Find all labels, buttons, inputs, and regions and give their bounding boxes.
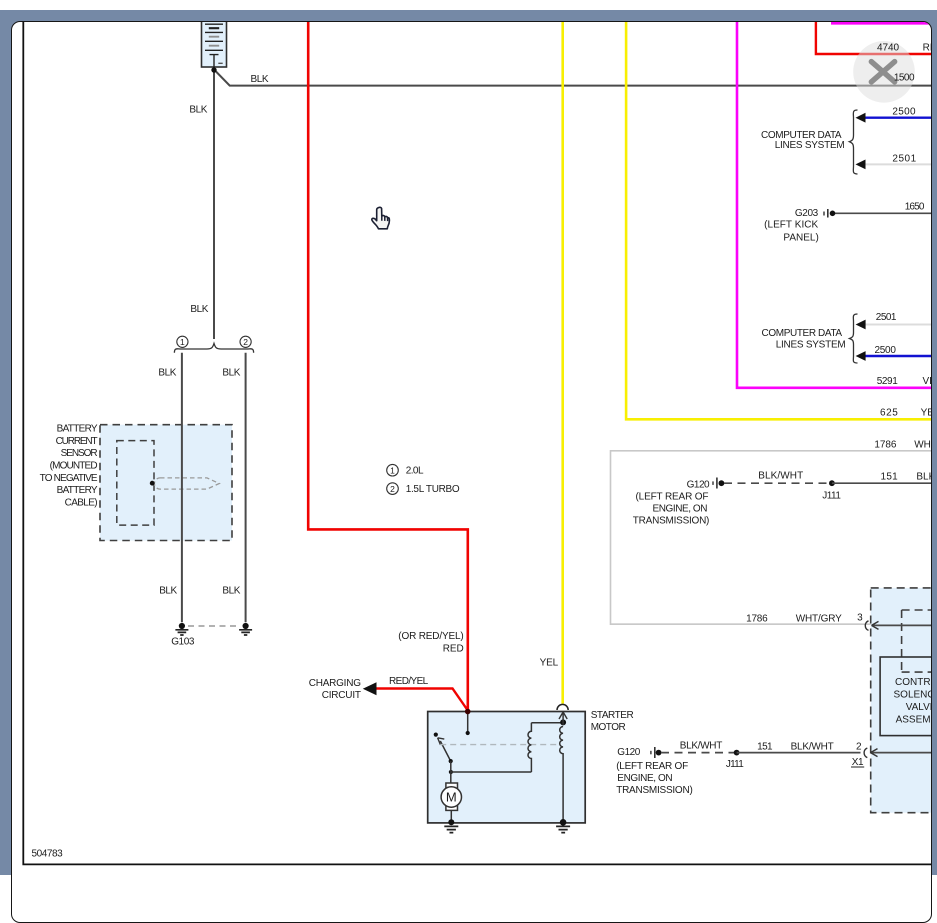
- svg-text:BLK: BLK: [222, 367, 240, 378]
- svg-text:(LEFT REAR OF: (LEFT REAR OF: [635, 491, 708, 502]
- svg-text:1: 1: [390, 465, 395, 475]
- svg-text:G203: G203: [794, 208, 818, 219]
- svg-text:VALVE: VALVE: [905, 702, 932, 713]
- svg-text:2: 2: [390, 483, 395, 493]
- svg-text:TRANSMISSION): TRANSMISSION): [632, 515, 709, 526]
- svg-text:1500: 1500: [893, 72, 914, 83]
- svg-text:ENGINE, ON: ENGINE, ON: [652, 503, 707, 514]
- svg-text:BLK: BLK: [159, 585, 177, 596]
- svg-text:CIRCUIT: CIRCUIT: [321, 690, 360, 701]
- svg-text:TRANSMISSION): TRANSMISSION): [616, 784, 693, 795]
- svg-text:CABLE): CABLE): [64, 497, 97, 508]
- svg-text:ENGINE, ON: ENGINE, ON: [617, 773, 672, 784]
- svg-text:CURRENT: CURRENT: [55, 435, 97, 446]
- svg-text:(LEFT REAR OF: (LEFT REAR OF: [616, 760, 688, 771]
- svg-text:ASSEMBLY: ASSEMBLY: [895, 714, 932, 725]
- svg-text:2.0L: 2.0L: [405, 465, 423, 476]
- svg-text:CONTROL: CONTROL: [895, 677, 933, 688]
- svg-text:RED: RED: [442, 643, 463, 654]
- svg-text:(OR RED/YEL): (OR RED/YEL): [398, 631, 463, 642]
- svg-text:COMPUTER DATA: COMPUTER DATA: [761, 327, 842, 338]
- svg-text:WHT/GRY: WHT/GRY: [914, 439, 932, 450]
- svg-text:2501: 2501: [875, 312, 896, 323]
- svg-text:STARTER: STARTER: [590, 709, 633, 720]
- svg-text:TO NEGATIVE: TO NEGATIVE: [39, 472, 97, 483]
- svg-text:2501: 2501: [892, 153, 916, 164]
- svg-text:BATTERY: BATTERY: [56, 423, 97, 434]
- svg-text:1.5L TURBO: 1.5L TURBO: [405, 484, 459, 495]
- svg-text:J111: J111: [822, 490, 841, 501]
- svg-text:BATTERY: BATTERY: [56, 485, 97, 496]
- svg-text:YEL: YEL: [920, 407, 932, 418]
- svg-text:BLK/WHT: BLK/WHT: [758, 470, 803, 481]
- svg-text:SENSOR: SENSOR: [60, 448, 97, 459]
- svg-text:(MOUNTED: (MOUNTED: [49, 460, 97, 471]
- svg-text:CHARGING: CHARGING: [308, 677, 361, 688]
- svg-text:G120: G120: [617, 747, 640, 758]
- svg-text:LINES SYSTEM: LINES SYSTEM: [774, 140, 844, 151]
- svg-text:3: 3: [857, 612, 863, 623]
- svg-text:YEL: YEL: [539, 657, 558, 668]
- svg-text:1650: 1650: [904, 201, 924, 212]
- svg-text:1786: 1786: [874, 439, 896, 450]
- svg-text:BLK/WHT: BLK/WHT: [916, 471, 932, 482]
- svg-text:BLK: BLK: [250, 73, 268, 84]
- svg-text:(LEFT KICK: (LEFT KICK: [764, 219, 818, 230]
- svg-text:RED: RED: [922, 42, 932, 53]
- svg-text:G120: G120: [686, 479, 709, 490]
- svg-text:LINES SYSTEM: LINES SYSTEM: [775, 339, 845, 350]
- svg-text:G103: G103: [171, 636, 195, 647]
- svg-text:MOTOR: MOTOR: [590, 722, 625, 733]
- svg-text:X1: X1: [851, 757, 863, 768]
- svg-text:2: 2: [856, 741, 862, 752]
- svg-text:BLK: BLK: [158, 367, 176, 378]
- svg-text:504783: 504783: [31, 848, 63, 859]
- svg-text:BLK: BLK: [189, 104, 207, 115]
- svg-text:BLK/WHT: BLK/WHT: [790, 741, 833, 752]
- svg-text:SOLENOID: SOLENOID: [893, 689, 932, 700]
- svg-text:PANEL): PANEL): [783, 232, 818, 243]
- svg-text:1: 1: [180, 336, 185, 346]
- svg-text:RED/YEL: RED/YEL: [389, 675, 429, 686]
- svg-text:2500: 2500: [892, 106, 916, 117]
- svg-text:J111: J111: [725, 759, 743, 770]
- svg-text:151: 151: [880, 471, 898, 482]
- svg-text:BLK: BLK: [222, 585, 240, 596]
- svg-text:1786: 1786: [746, 613, 768, 624]
- svg-text:625: 625: [880, 407, 898, 418]
- svg-text:M: M: [445, 789, 456, 804]
- svg-text:151: 151: [757, 741, 773, 752]
- svg-text:5291: 5291: [876, 375, 898, 386]
- svg-text:VIO: VIO: [922, 375, 932, 386]
- svg-text:2: 2: [243, 336, 248, 346]
- svg-text:BLK: BLK: [190, 304, 208, 315]
- svg-text:2500: 2500: [874, 345, 896, 356]
- svg-text:WHT/GRY: WHT/GRY: [795, 613, 841, 624]
- svg-text:4740: 4740: [877, 42, 899, 53]
- svg-text:BLK/WHT: BLK/WHT: [679, 740, 722, 751]
